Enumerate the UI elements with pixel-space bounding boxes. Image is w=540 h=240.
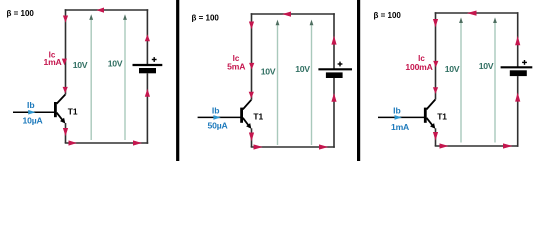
svg-text:1mA: 1mA — [43, 57, 61, 67]
svg-text:10V: 10V — [108, 58, 123, 68]
current arrow left on top wire panel 1 — [96, 8, 104, 13]
current arrow right on bottom wire left panel 2 — [254, 144, 263, 149]
panel separator 2 — [357, 0, 360, 161]
panel separator 1 — [176, 0, 179, 161]
current arrow down above collector panel 3 — [433, 87, 438, 94]
svg-text:Ib: Ib — [27, 100, 35, 110]
current arrow left on top wire panel 3 — [467, 11, 477, 16]
wire right lower panel 3 — [517, 76, 519, 147]
svg-text:β = 100: β = 100 — [7, 9, 35, 18]
current arrow down on left wire (top) panel 3 — [433, 19, 438, 27]
svg-text:5mA: 5mA — [227, 62, 245, 72]
voltage indicator line 2 panel 3 — [493, 17, 497, 142]
battery plus sign panel 3 — [522, 60, 527, 65]
current arrow left on top wire panel 2 — [282, 12, 291, 17]
wire right lower panel 1 — [146, 73, 148, 144]
svg-text:100mA: 100mA — [405, 62, 432, 72]
current arrow right on bottom wire right panel 2 — [319, 144, 328, 149]
current arrow down on left wire (top) panel 1 — [63, 16, 68, 23]
wire emitter to bottom panel 2 — [251, 128, 253, 147]
svg-text:1mA: 1mA — [391, 122, 409, 132]
svg-text:10V: 10V — [445, 64, 460, 74]
wire left collector panel 1 — [65, 9, 67, 94]
svg-text:T1: T1 — [68, 107, 78, 117]
wire right upper panel 1 — [146, 9, 148, 65]
wire base panel 3 — [378, 116, 425, 118]
svg-text:10µA: 10µA — [23, 115, 43, 125]
wire bottom panel 3 — [435, 145, 519, 147]
wire emitter to bottom panel 1 — [65, 123, 67, 143]
wire right lower panel 2 — [333, 78, 335, 148]
voltage indicator line 1 panel 2 — [276, 20, 280, 145]
current arrow up on right wire above battery panel 1 — [145, 34, 150, 41]
current arrow up on right wire above battery panel 2 — [331, 36, 336, 45]
transistor T1 panel 2 — [242, 100, 252, 129]
current arrow down above collector panel 1 — [63, 87, 68, 94]
svg-text:T1: T1 — [437, 112, 447, 122]
current arrow right on bottom wire left panel 1 — [69, 140, 78, 145]
wire left collector panel 3 — [435, 12, 437, 99]
wire bottom panel 2 — [251, 146, 335, 148]
battery V1 panel 3 — [501, 67, 533, 76]
transistor T1 panel 3 — [425, 100, 435, 129]
battery plus sign panel 2 — [338, 62, 343, 67]
wire top panel 1 — [65, 9, 149, 11]
wire emitter to bottom panel 3 — [435, 128, 437, 146]
wire top panel 2 — [251, 13, 335, 15]
voltage indicator line 1 panel 3 — [459, 17, 463, 142]
current arrow up on right wire below battery panel 1 — [145, 89, 150, 97]
wire base panel 2 — [198, 116, 242, 118]
svg-text:β = 100: β = 100 — [192, 13, 220, 22]
base current arrow panel 2 — [213, 115, 220, 120]
wire bottom panel 1 — [65, 142, 149, 144]
base current arrow panel 3 — [395, 115, 402, 120]
svg-text:β = 100: β = 100 — [374, 11, 402, 20]
voltage indicator line 2 panel 1 — [123, 14, 127, 140]
svg-text:10V: 10V — [295, 64, 310, 74]
svg-text:50µA: 50µA — [208, 121, 228, 131]
wire top panel 3 — [435, 12, 519, 14]
wire base panel 1 — [13, 111, 55, 113]
current arrow right on bottom wire right panel 1 — [133, 140, 142, 145]
current arrow up on right wire above battery panel 3 — [515, 36, 520, 45]
current arrow down below emitter panel 2 — [249, 133, 254, 142]
svg-text:Ib: Ib — [212, 105, 220, 115]
svg-text:Ib: Ib — [393, 105, 401, 115]
current arrow down on left wire (top) panel 2 — [249, 22, 254, 30]
current arrow down above collector panel 2 — [249, 92, 254, 99]
current arrow right on bottom wire right panel 3 — [503, 143, 513, 148]
base current arrow panel 1 — [28, 110, 35, 115]
wire right upper panel 2 — [333, 13, 335, 69]
current arrow down at Ic label panel 1 — [62, 59, 67, 66]
current arrow down below emitter panel 1 — [63, 128, 68, 136]
current arrow down below emitter panel 3 — [433, 132, 438, 141]
current arrow up on right wire below battery panel 3 — [515, 92, 520, 101]
voltage indicator line 1 panel 1 — [89, 14, 93, 140]
wire right upper panel 3 — [517, 12, 519, 67]
current arrow right on bottom wire left panel 3 — [440, 143, 449, 148]
svg-text:10V: 10V — [73, 60, 88, 70]
battery V1 panel 2 — [318, 69, 352, 78]
voltage indicator line 2 panel 2 — [310, 20, 314, 145]
svg-text:10V: 10V — [261, 67, 276, 77]
svg-text:10V: 10V — [479, 61, 494, 71]
current arrow up on right wire below battery panel 2 — [331, 93, 336, 102]
battery V1 panel 1 — [133, 65, 163, 73]
current arrow down at Ic label panel 2 — [249, 63, 254, 70]
transistor T1 panel 1 — [55, 95, 65, 124]
svg-text:T1: T1 — [253, 112, 263, 122]
battery plus sign panel 1 — [152, 57, 157, 62]
current arrow down at Ic label panel 3 — [433, 61, 438, 68]
wire left collector panel 2 — [251, 13, 253, 100]
